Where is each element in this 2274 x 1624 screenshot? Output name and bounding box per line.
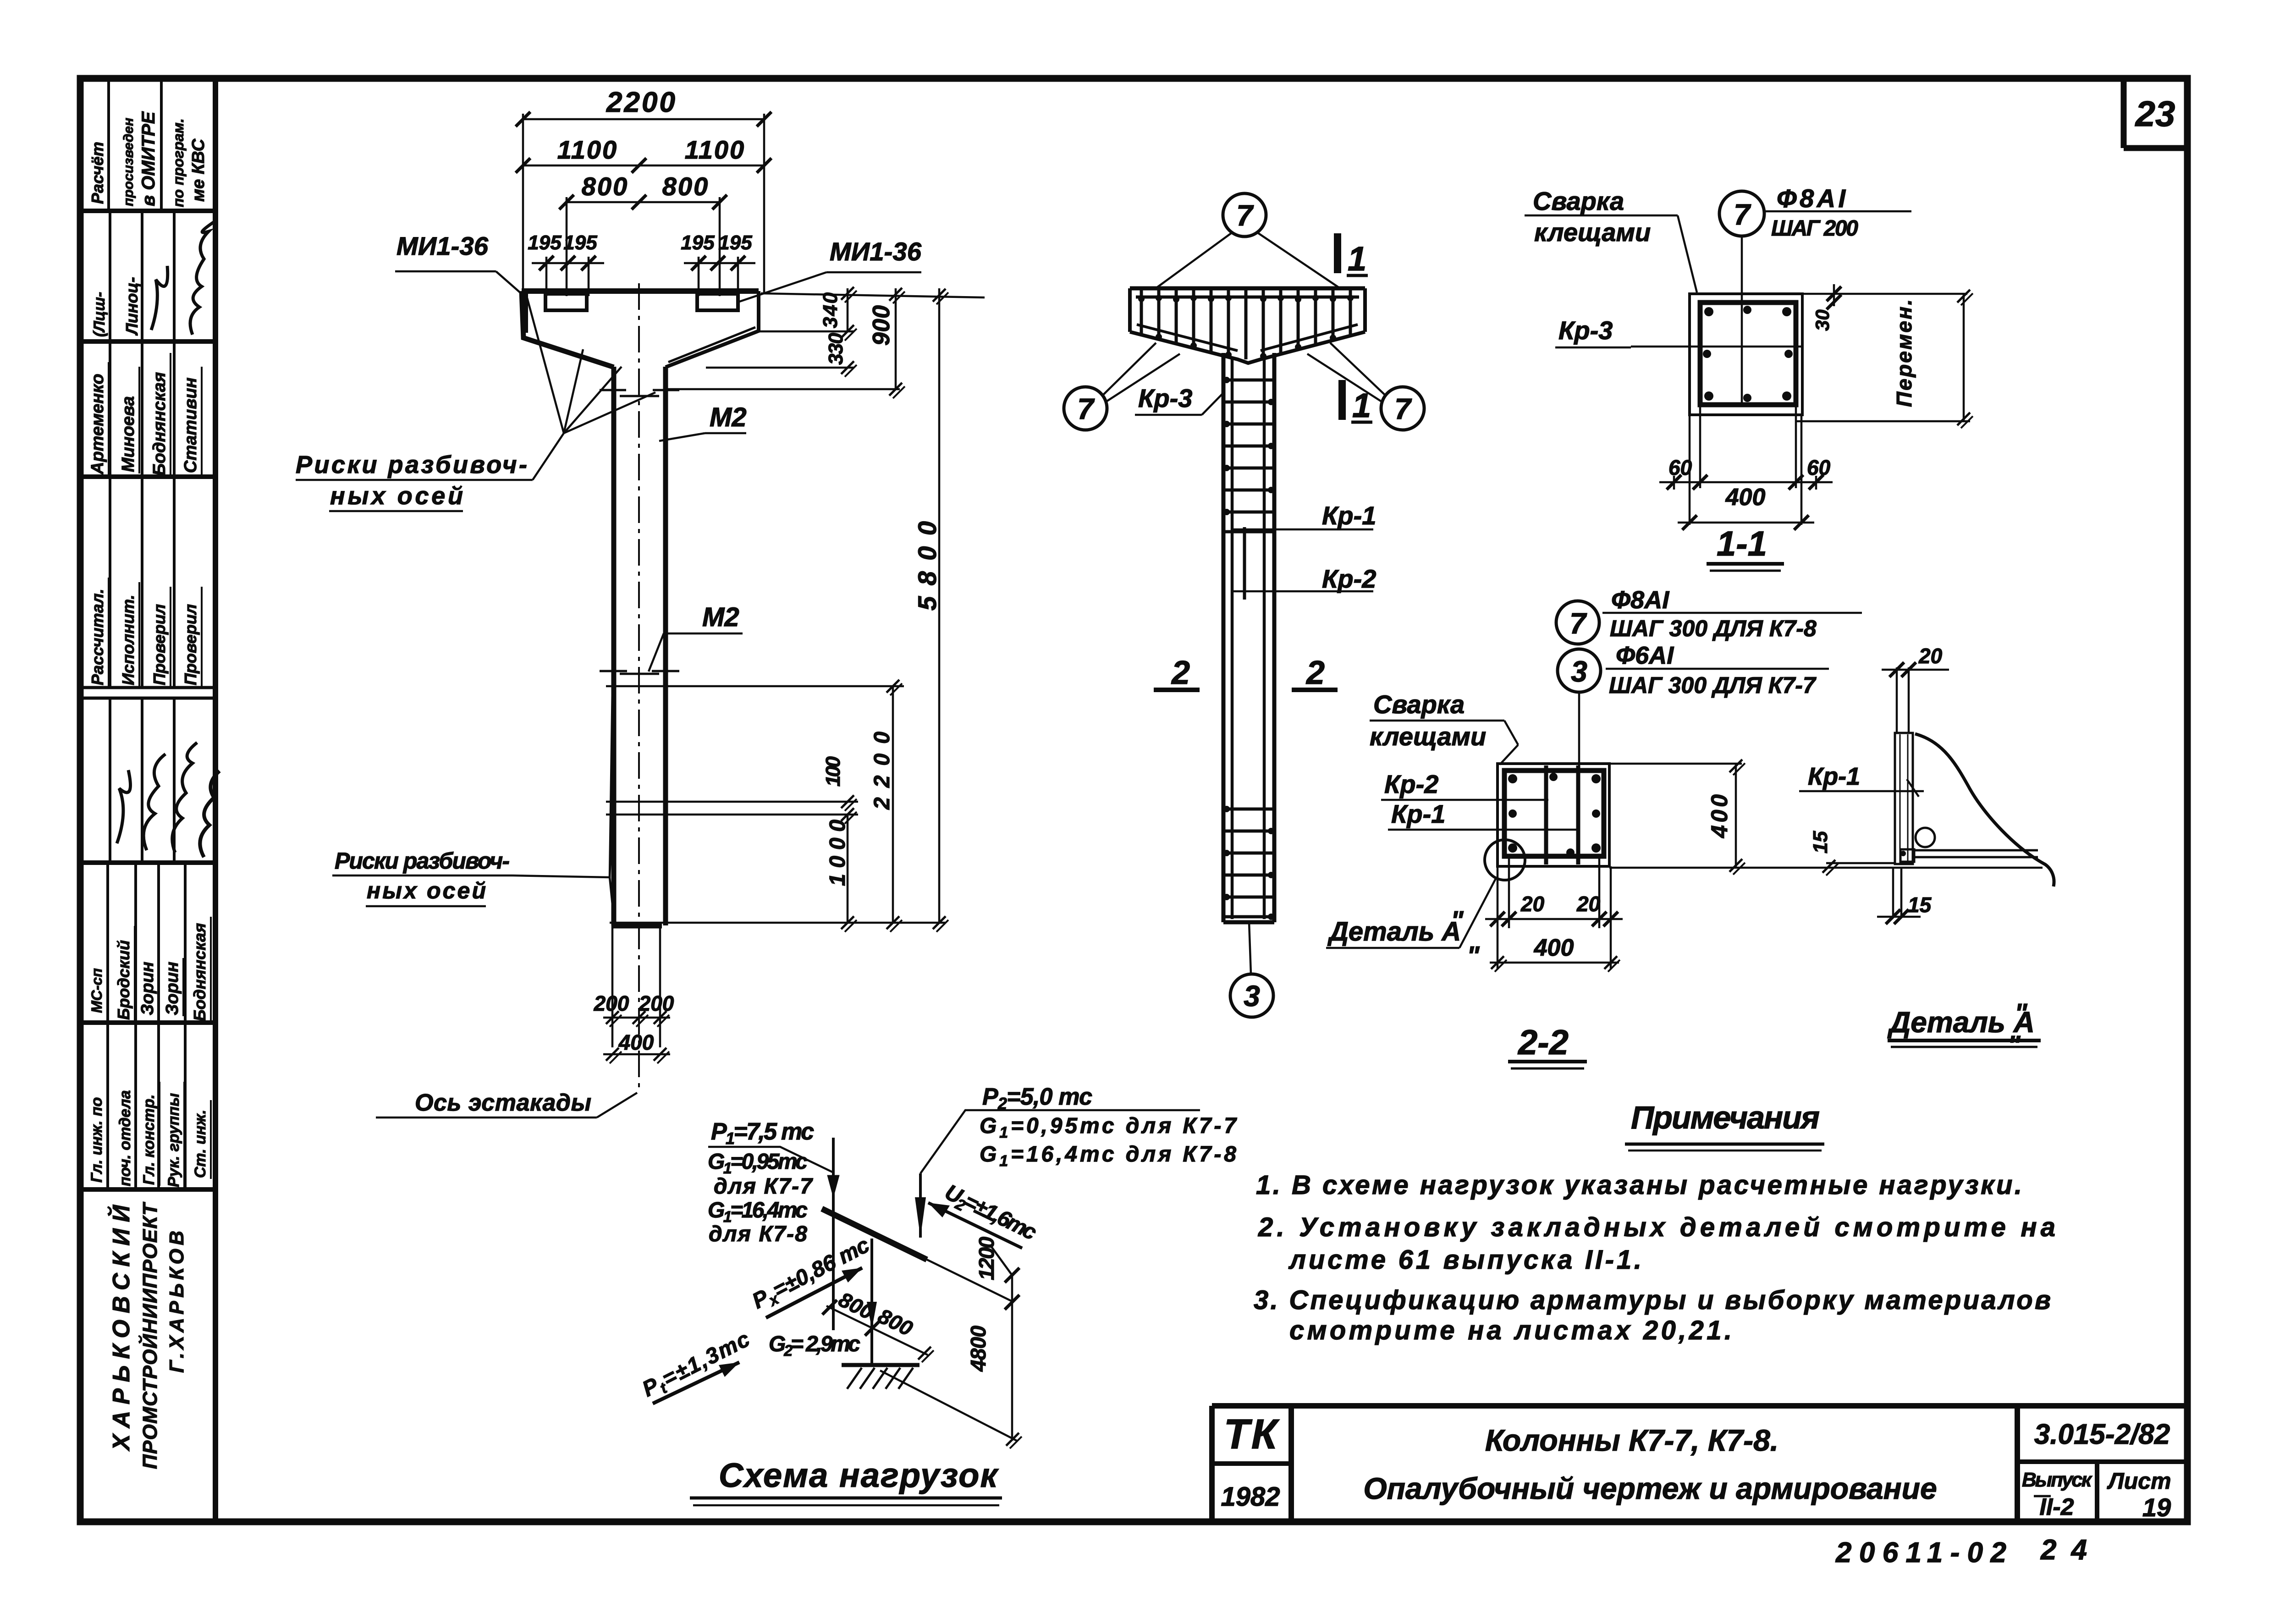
svg-text:ПРОМСТРОЙНИИПРОЕКТ: ПРОМСТРОЙНИИПРОЕКТ bbox=[138, 1202, 161, 1469]
svg-text:Г.ХАРЬКОВ: Г.ХАРЬКОВ bbox=[165, 1231, 188, 1373]
svg-text:1. В схеме нагрузок указаны: 1. В схеме нагрузок указаны расчетные на… bbox=[1256, 1170, 2022, 1200]
svg-text:19: 19 bbox=[2142, 1493, 2171, 1522]
svg-text:Кр-1: Кр-1 bbox=[1391, 799, 1445, 828]
svg-text:Проверил: Проверил bbox=[181, 604, 200, 685]
svg-text:Ф6АI: Ф6АI bbox=[1616, 642, 1674, 669]
svg-text:(Лцш-: (Лцш- bbox=[91, 292, 108, 337]
svg-text:Бродский: Бродский bbox=[114, 940, 133, 1020]
svg-text:3: 3 bbox=[1244, 980, 1260, 1013]
svg-text:Кр-1: Кр-1 bbox=[1808, 763, 1860, 790]
svg-text:330: 330 bbox=[825, 332, 847, 365]
svg-text:Проверил: Проверил bbox=[150, 604, 169, 685]
svg-text:в ОМИТРЕ: в ОМИТРЕ bbox=[138, 111, 159, 206]
svg-text:2200: 2200 bbox=[606, 87, 677, 118]
svg-text:800: 800 bbox=[875, 1304, 917, 1341]
svg-text:800: 800 bbox=[582, 172, 628, 201]
svg-text:по програм.: по програм. bbox=[170, 118, 187, 207]
svg-text:Кр-3: Кр-3 bbox=[1558, 316, 1613, 345]
svg-text:для К7-8: для К7-8 bbox=[709, 1222, 807, 1246]
svg-text:для К7-7: для К7-7 bbox=[714, 1174, 813, 1199]
svg-text:Гл. констр.: Гл. констр. bbox=[140, 1094, 158, 1185]
svg-text:МИ1-36: МИ1-36 bbox=[830, 237, 922, 266]
svg-text:II-2: II-2 bbox=[2039, 1494, 2074, 1520]
svg-text:1100: 1100 bbox=[557, 135, 618, 164]
svg-text:400: 400 bbox=[618, 1030, 654, 1054]
svg-text:Перемен.: Перемен. bbox=[1892, 299, 1916, 407]
svg-text:7: 7 bbox=[1236, 199, 1254, 232]
svg-text:15: 15 bbox=[1908, 893, 1932, 917]
svg-text:100: 100 bbox=[822, 756, 844, 787]
svg-text:60: 60 bbox=[1807, 456, 1831, 479]
svg-text:20: 20 bbox=[1918, 644, 1943, 668]
svg-text:Гл. инж. по: Гл. инж. по bbox=[88, 1097, 105, 1183]
svg-text:Кр-2: Кр-2 bbox=[1384, 770, 1438, 798]
svg-text:листе 61 выпуска II-1.: листе 61 выпуска II-1. bbox=[1288, 1245, 1641, 1275]
svg-text:Миноева: Миноева bbox=[119, 396, 138, 472]
svg-text:195: 195 bbox=[528, 231, 562, 254]
svg-text:Стативин: Стативин bbox=[181, 377, 200, 473]
svg-text:Линоц-: Линоц- bbox=[122, 277, 141, 336]
svg-text:": " bbox=[2015, 998, 2028, 1028]
svg-text:Сварка: Сварка bbox=[1373, 690, 1465, 719]
svg-text:7: 7 bbox=[1734, 198, 1751, 231]
svg-text:МИ1-36: МИ1-36 bbox=[396, 231, 489, 260]
svg-text:Сварка: Сварка bbox=[1533, 187, 1624, 215]
svg-text:Расчёт: Расчёт bbox=[88, 142, 107, 204]
svg-text:просизведен: просизведен bbox=[121, 118, 136, 206]
svg-text:МС-сп: МС-сп bbox=[88, 968, 105, 1013]
svg-text:60: 60 bbox=[1668, 456, 1692, 479]
svg-text:1: 1 bbox=[1352, 386, 1371, 424]
svg-text:G1=16,4тс для К7-8: G1=16,4тс для К7-8 bbox=[980, 1142, 1236, 1170]
svg-text:клещами: клещами bbox=[1534, 218, 1651, 247]
svg-text:400: 400 bbox=[1707, 794, 1732, 838]
svg-text:": " bbox=[2008, 1030, 2021, 1060]
svg-text:G1=16,4тс: G1=16,4тс bbox=[708, 1198, 808, 1226]
svg-text:195: 195 bbox=[681, 231, 715, 254]
svg-text:200: 200 bbox=[594, 991, 629, 1015]
svg-text:Выпуск: Выпуск bbox=[2022, 1469, 2093, 1491]
svg-text:": " bbox=[1467, 941, 1480, 971]
svg-text:ХАРЬКОВСКИЙ: ХАРЬКОВСКИЙ bbox=[107, 1204, 135, 1452]
svg-text:2-2: 2-2 bbox=[1517, 1023, 1569, 1062]
svg-text:400: 400 bbox=[1534, 935, 1574, 961]
svg-text:Боднянская: Боднянская bbox=[190, 923, 209, 1021]
svg-text:3. Спецификацию арматуры и в: 3. Спецификацию арматуры и выборку матер… bbox=[1254, 1285, 2051, 1315]
svg-text:Артеменко: Артеменко bbox=[88, 374, 107, 475]
svg-text:Деталь А: Деталь А bbox=[1327, 917, 1461, 947]
svg-text:Риски разбивоч-: Риски разбивоч- bbox=[335, 848, 510, 874]
svg-text:2200: 2200 bbox=[870, 732, 894, 810]
svg-text:20611-02: 20611-02 bbox=[1835, 1537, 2006, 1569]
svg-text:2: 2 bbox=[1305, 655, 1325, 691]
svg-text:5800: 5800 bbox=[913, 521, 942, 611]
svg-text:1200: 1200 bbox=[975, 1237, 998, 1280]
svg-text:200: 200 bbox=[639, 991, 674, 1015]
svg-text:800: 800 bbox=[662, 172, 709, 201]
svg-text:Кр-1: Кр-1 bbox=[1322, 501, 1376, 530]
svg-text:2. Установку закладных детал: 2. Установку закладных деталей смотрите … bbox=[1258, 1212, 2055, 1242]
svg-text:30: 30 bbox=[1811, 309, 1833, 331]
svg-text:поч. отдела: поч. отдела bbox=[116, 1090, 134, 1186]
svg-text:1-1: 1-1 bbox=[1717, 524, 1767, 563]
svg-text:G1=0,95тс для К7-7: G1=0,95тс для К7-7 bbox=[980, 1114, 1237, 1141]
svg-text:Лист: Лист bbox=[2107, 1468, 2171, 1494]
svg-text:ных осей: ных осей bbox=[330, 482, 463, 510]
svg-text:клещами: клещами bbox=[1370, 722, 1486, 751]
svg-text:1: 1 bbox=[1348, 240, 1366, 278]
svg-text:1000: 1000 bbox=[826, 820, 850, 886]
svg-text:ШАГ 300 ДЛЯ К7-8: ШАГ 300 ДЛЯ К7-8 bbox=[1610, 616, 1817, 641]
svg-text:G1=0,95тс: G1=0,95тс bbox=[708, 1150, 808, 1177]
svg-text:Зорин: Зорин bbox=[163, 962, 182, 1015]
svg-text:Схема нагрузок: Схема нагрузок bbox=[719, 1456, 999, 1494]
svg-text:3.015-2/82: 3.015-2/82 bbox=[2034, 1419, 2170, 1450]
svg-text:Ф8АI: Ф8АI bbox=[1611, 586, 1669, 614]
svg-text:Рук. группы: Рук. группы bbox=[165, 1093, 182, 1187]
svg-text:Pt=±1,3тс: Pt=±1,3тс bbox=[639, 1327, 755, 1404]
svg-text:Рассчитал.: Рассчитал. bbox=[88, 589, 107, 685]
svg-text:Риски разбивоч-: Риски разбивоч- bbox=[296, 451, 527, 479]
svg-text:ных осей: ных осей bbox=[367, 878, 486, 903]
svg-text:": " bbox=[1451, 906, 1464, 936]
svg-text:4800: 4800 bbox=[966, 1326, 990, 1372]
svg-text:195: 195 bbox=[563, 231, 597, 254]
svg-text:Колонны К7-7, К7-8.: Колонны К7-7, К7-8. bbox=[1485, 1423, 1778, 1457]
svg-text:ШАГ 300 ДЛЯ К7-7: ШАГ 300 ДЛЯ К7-7 bbox=[1609, 672, 1817, 698]
svg-text:400: 400 bbox=[1725, 484, 1766, 511]
svg-text:М2: М2 bbox=[702, 602, 739, 632]
svg-text:1100: 1100 bbox=[685, 135, 745, 164]
svg-text:15: 15 bbox=[1809, 831, 1832, 853]
svg-text:24: 24 bbox=[2040, 1534, 2102, 1566]
svg-text:P2=5,0 тс: P2=5,0 тс bbox=[982, 1084, 1092, 1113]
svg-text:Исполнит.: Исполнит. bbox=[119, 595, 138, 685]
svg-text:Боднянская: Боднянская bbox=[150, 372, 169, 476]
svg-text:ШАГ 200: ШАГ 200 bbox=[1771, 216, 1858, 241]
svg-text:смотрите на листах 20,21.: смотрите на листах 20,21. bbox=[1289, 1316, 1732, 1345]
svg-text:20: 20 bbox=[1520, 892, 1545, 916]
svg-text:Зорин: Зорин bbox=[138, 962, 157, 1015]
svg-text:7: 7 bbox=[1077, 392, 1095, 425]
svg-text:ТК: ТК bbox=[1224, 1411, 1280, 1458]
svg-text:20: 20 bbox=[1576, 892, 1601, 916]
svg-text:Кр-2: Кр-2 bbox=[1322, 564, 1376, 593]
svg-text:Опалубочный чертеж и армиров: Опалубочный чертеж и армирование bbox=[1363, 1471, 1937, 1505]
svg-text:G2= 2,9тс: G2= 2,9тс bbox=[769, 1332, 860, 1360]
svg-text:900: 900 bbox=[868, 305, 895, 346]
svg-text:195: 195 bbox=[718, 231, 752, 254]
svg-text:23: 23 bbox=[2135, 94, 2175, 134]
svg-text:Ст. инж.: Ст. инж. bbox=[192, 1110, 209, 1178]
svg-text:7: 7 bbox=[1569, 607, 1587, 640]
svg-text:М2: М2 bbox=[710, 402, 747, 432]
svg-text:3: 3 bbox=[1571, 655, 1587, 688]
svg-text:Примечания: Примечания bbox=[1631, 1100, 1820, 1135]
svg-text:7: 7 bbox=[1394, 392, 1412, 425]
svg-text:2: 2 bbox=[1171, 655, 1190, 691]
svg-text:340: 340 bbox=[819, 292, 842, 328]
svg-text:Кр-3: Кр-3 bbox=[1138, 384, 1192, 413]
svg-text:Ф8АI: Ф8АI bbox=[1777, 184, 1846, 213]
svg-text:1982: 1982 bbox=[1221, 1482, 1280, 1512]
svg-text:P1=7,5 тс: P1=7,5 тс bbox=[711, 1118, 814, 1148]
svg-text:Ось эстакады: Ось эстакады bbox=[415, 1090, 591, 1116]
svg-text:ме КВС: ме КВС bbox=[189, 138, 208, 202]
